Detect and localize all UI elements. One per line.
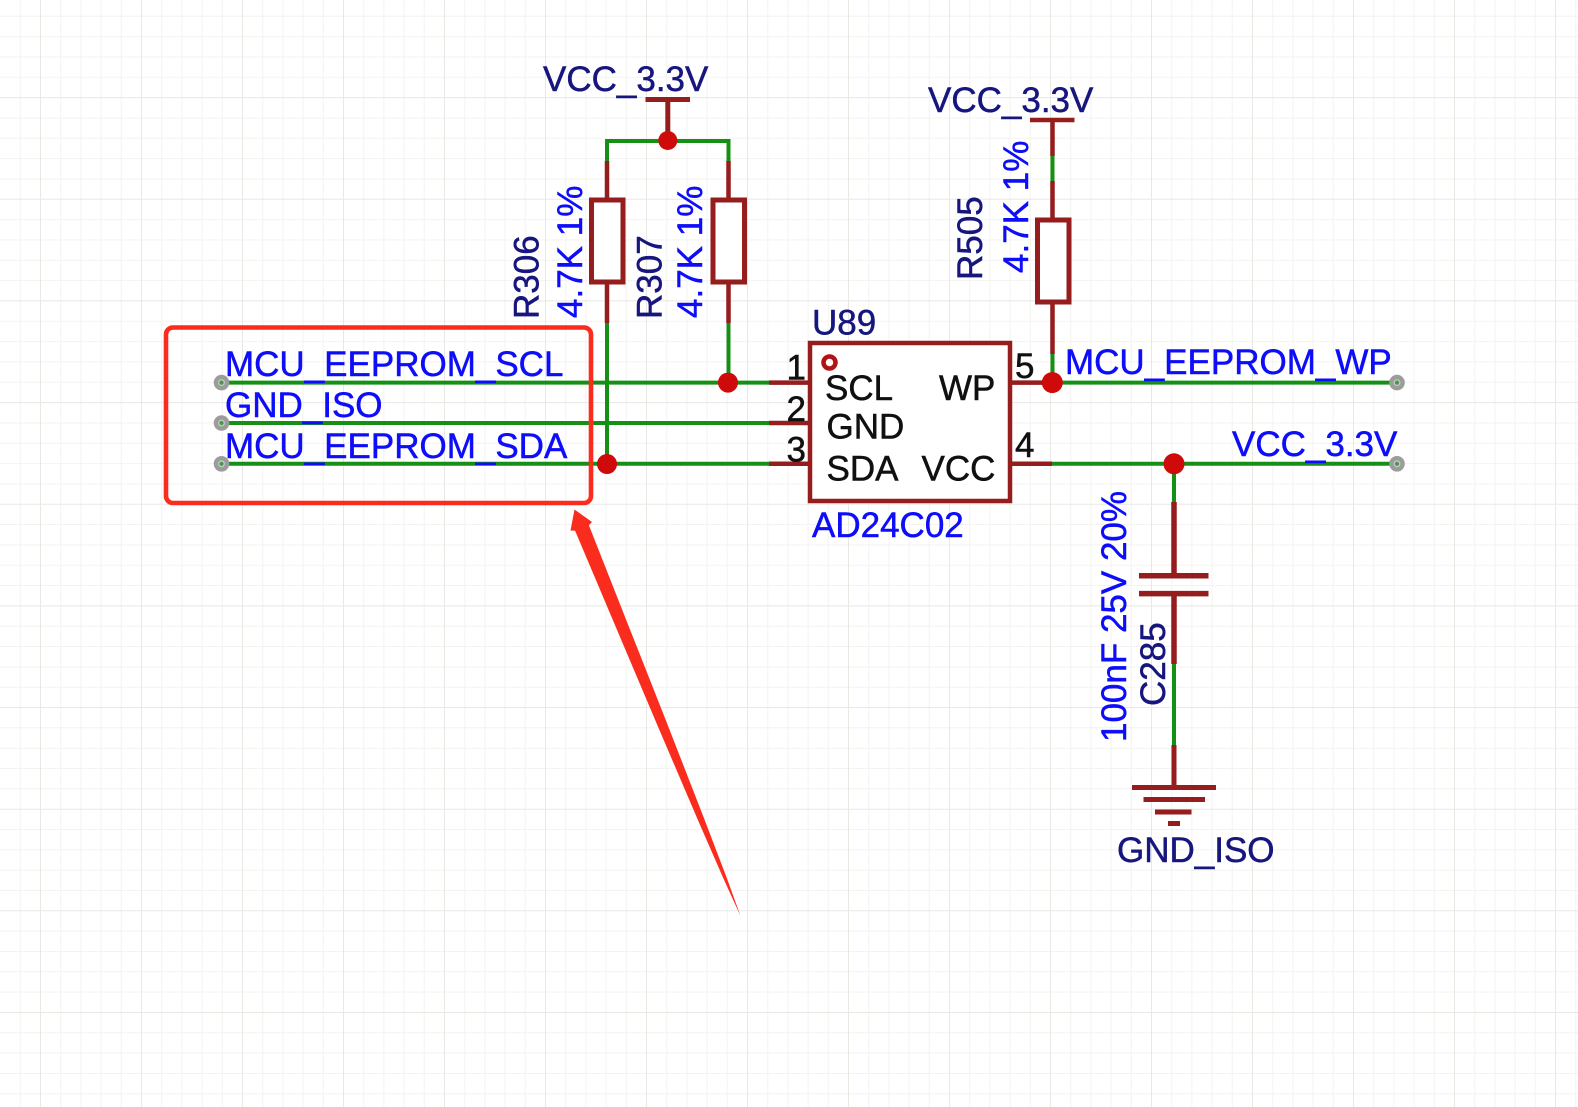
svg-text:R505: R505: [951, 196, 990, 280]
capacitor C285 pins and plates: [1139, 502, 1209, 664]
svg-text:VCC: VCC: [922, 450, 996, 489]
terminal pad WP: [1393, 379, 1401, 387]
wire net VCC_3.3V (pin4): [1052, 462, 1397, 466]
svg-text:100nF 25V 20%: 100nF 25V 20%: [1095, 491, 1134, 742]
annotation red rectangle: [166, 328, 591, 504]
power flag VCC_3.3V (left): [646, 100, 691, 142]
terminal pad SCL: [218, 379, 226, 387]
wire net MCU_EEPROM_SCL (pin1): [222, 381, 770, 385]
svg-text:4: 4: [1015, 426, 1034, 465]
resistor R505 pins: [1050, 181, 1055, 354]
wire R505 bottom to pin5 node: [1051, 353, 1055, 378]
power flag VCC_3.3V (right): [1030, 120, 1075, 156]
wire VCC node to C285: [1172, 464, 1176, 503]
wire VCC rail above R306/R307: [607, 141, 729, 162]
wire net MCU_EEPROM_SDA (pin3): [222, 462, 770, 466]
svg-text:SCL: SCL: [825, 369, 893, 408]
svg-text:2: 2: [787, 390, 806, 429]
svg-text:MCU_EEPROM_SCL: MCU_EEPROM_SCL: [225, 345, 563, 384]
svg-text:SDA: SDA: [827, 450, 900, 489]
svg-text:AD24C02: AD24C02: [812, 506, 964, 545]
resistor R306 pins: [605, 161, 610, 323]
wire C285 to GND_ISO symbol: [1172, 664, 1176, 746]
svg-text:WP: WP: [939, 369, 995, 408]
wire VCC flag to R505: [1051, 155, 1055, 181]
IC U89 body: [810, 343, 1010, 501]
wire R307 bottom to SCL: [727, 322, 731, 383]
svg-text:3: 3: [787, 431, 806, 470]
resistor R306 body: [592, 200, 624, 282]
svg-text:MCU_EEPROM_WP: MCU_EEPROM_WP: [1065, 343, 1392, 382]
terminal pad VCC: [1393, 460, 1401, 468]
resistor R505 body: [1038, 220, 1070, 302]
resistor R307 pins: [726, 161, 731, 323]
op pin stubs U89 left: pin1 pin2 pin3: [769, 383, 809, 464]
pin stubs U89 right: pin5 pin4: [1011, 383, 1052, 464]
wire net MCU_EEPROM_WP (pin5): [1052, 381, 1397, 385]
resistor R307 body: [713, 200, 745, 282]
U89 pin-1 indicator circle: [824, 357, 836, 369]
svg-text:R307: R307: [631, 235, 670, 319]
svg-text:1: 1: [787, 349, 806, 388]
svg-text:5: 5: [1015, 347, 1034, 386]
junction R505/pin5 WP: [1042, 372, 1063, 393]
terminal pad GND_ISO: [218, 419, 226, 427]
svg-text:VCC_3.3V: VCC_3.3V: [543, 60, 709, 99]
svg-text:VCC_3.3V: VCC_3.3V: [1232, 425, 1398, 464]
junction at VCC rail top: [658, 131, 677, 150]
terminal pad SDA: [218, 460, 226, 468]
svg-text:GND: GND: [827, 408, 905, 447]
svg-text:GND_ISO: GND_ISO: [1117, 831, 1275, 870]
svg-text:C285: C285: [1134, 622, 1173, 706]
ground GND_ISO symbol: [1132, 745, 1216, 824]
svg-text:4.7K 1%: 4.7K 1%: [671, 186, 710, 318]
junction R306/SDA: [597, 454, 617, 474]
svg-text:U89: U89: [812, 304, 876, 343]
svg-text:R306: R306: [508, 235, 547, 319]
svg-text:4.7K 1%: 4.7K 1%: [997, 141, 1036, 273]
svg-text:VCC_3.3V: VCC_3.3V: [928, 81, 1094, 120]
junction C285/VCC: [1164, 453, 1185, 474]
svg-text:GND_ISO: GND_ISO: [225, 386, 383, 425]
junction R307/SCL: [718, 373, 738, 393]
wire net GND_ISO (pin2): [222, 421, 770, 425]
wire R306 bottom to SDA: [605, 322, 609, 464]
svg-text:4.7K 1%: 4.7K 1%: [551, 186, 590, 318]
annotation red arrow: [571, 510, 741, 917]
svg-text:MCU_EEPROM_SDA: MCU_EEPROM_SDA: [225, 427, 568, 466]
